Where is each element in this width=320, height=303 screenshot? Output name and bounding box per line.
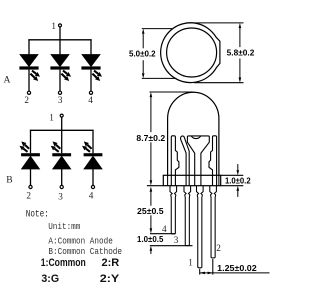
svg-text:5.8±0.2: 5.8±0.2 [227, 49, 255, 58]
svg-text:1: 1 [51, 21, 56, 31]
svg-text:5.0±0.2: 5.0±0.2 [129, 50, 156, 59]
flange bottom extension line left [147, 185, 163, 187]
terminal pin 2 (B) [29, 185, 32, 188]
dim line 8.7 upper arrow [150, 92, 153, 97]
svg-text:B: B [6, 175, 12, 186]
svg-text:3: 3 [174, 235, 179, 245]
svg-text:3:G: 3:G [41, 273, 59, 285]
wire bus to LED4 cathode [30, 130, 32, 153]
svg-text:2: 2 [26, 190, 31, 200]
dim extension lines 5.0 [142, 28, 172, 30]
LED body side outline (dome) [168, 92, 219, 175]
pitch dim left arrow [200, 272, 205, 275]
lead pin2 [210, 186, 217, 258]
svg-text:2:R: 2:R [102, 257, 120, 269]
schematic A pin 1 wire [59, 27, 61, 55]
flange top extension line right [221, 174, 244, 176]
emission arrows of D4 red LED [23, 149, 27, 152]
diode D1 red LED (schematic A) [20, 55, 38, 67]
lead4 tip extension line [150, 233, 176, 235]
svg-text:1.0±0.2: 1.0±0.2 [225, 176, 251, 185]
svg-text:B:Common Cathode: B:Common Cathode [48, 246, 122, 257]
svg-text:3: 3 [58, 95, 63, 105]
dim extension lines 5.8 [186, 22, 244, 24]
internal lead post pin4 [171, 136, 179, 186]
LED flange outline (side view) [163, 175, 220, 185]
lead pin4 (shortest) [170, 186, 177, 234]
diode D5 green LED (schematic B) [52, 153, 71, 156]
diode D2 green LED (schematic A) [51, 55, 69, 67]
lead pin3 [184, 186, 191, 246]
internal lead post pin3 [181, 136, 190, 186]
schematic A pin 1 terminal [59, 24, 62, 27]
dim 1.0 flange upper arrow [237, 170, 240, 175]
flange bottom extension line right [221, 185, 244, 187]
svg-text:3: 3 [58, 191, 63, 201]
svg-text:1:Common: 1:Common [41, 257, 86, 269]
dim line 5.0 upper arrow [142, 29, 145, 34]
LED package flange outline (top view) with cathode flat [161, 23, 220, 83]
svg-text:1: 1 [188, 258, 193, 268]
diode D6 yellow LED (schematic B) [84, 153, 103, 156]
diode D4 red LED (schematic B) [21, 153, 40, 156]
dim line 5.8 upper arrow [239, 23, 242, 28]
emission arrows of D5 green LED [55, 149, 59, 152]
wire D6 yellow LED anode to terminal [92, 169, 94, 185]
svg-text:Unit:mm: Unit:mm [48, 221, 80, 232]
wire D2 green LED cathode to terminal [59, 70, 61, 92]
wire bus to LED3 anode [90, 39, 92, 54]
wire bus to LED6 cathode [92, 130, 94, 153]
svg-text:Note:: Note: [26, 210, 49, 221]
lead pin1 (longest, common) [197, 186, 204, 268]
terminal pin 2 (A) [27, 91, 30, 94]
terminal pin 3 (A) [58, 91, 61, 94]
wire D4 red LED anode to terminal [30, 169, 32, 185]
svg-text:4: 4 [89, 190, 94, 200]
svg-text:A: A [4, 74, 11, 85]
svg-text:A:Common Anode: A:Common Anode [48, 236, 113, 247]
dim line 1.0 lower arrow [150, 246, 153, 251]
internal lead post pin2 [209, 136, 217, 186]
lead1 pitch extension line [199, 269, 201, 275]
emission arrows of D3 yellow LED [94, 71, 98, 74]
svg-text:1.25±0.02: 1.25±0.02 [217, 264, 257, 273]
svg-text:25±0.5: 25±0.5 [137, 207, 164, 216]
dim line 5.8 lower arrow [239, 78, 242, 83]
dim line 8.7 lower arrow [150, 180, 153, 185]
emission arrows of D6 yellow LED [86, 149, 90, 152]
lead2 pitch extension line [212, 259, 214, 275]
schematic B pin 1 wire [61, 117, 63, 153]
svg-text:2: 2 [216, 243, 221, 253]
wire D5 green LED anode to terminal [61, 169, 63, 185]
svg-text:1.0±0.5: 1.0±0.5 [137, 235, 164, 244]
terminal pin 3 (B) [60, 185, 63, 188]
emission arrows of D2 green LED [63, 71, 67, 74]
schematic A anode bus wire [28, 39, 91, 41]
emission arrows of D1 red LED [32, 71, 36, 74]
LED flange fill (side view) [163, 175, 220, 185]
schematic B pin 1 terminal [60, 114, 63, 117]
dim line 25 lower arrow [150, 228, 153, 233]
wire D1 red LED cathode to terminal [28, 70, 30, 92]
dim line 5.0 lower arrow [142, 73, 145, 78]
dim 1.0 flange lower arrow [237, 186, 240, 191]
terminal pin 4 (A) [89, 91, 92, 94]
wire D3 yellow LED cathode to terminal [90, 70, 92, 92]
svg-text:2: 2 [24, 95, 29, 105]
svg-text:4: 4 [88, 95, 93, 105]
terminal pin 4 (B) [91, 185, 94, 188]
lead3 tip extension line [150, 245, 193, 247]
pitch dimension baseline [200, 272, 270, 274]
diode D3 yellow LED (schematic A) [82, 55, 100, 67]
svg-text:1: 1 [49, 113, 54, 123]
internal reflector cup pin1 [187, 136, 209, 186]
LED chip cavity arc in cup [191, 136, 200, 138]
svg-text:4: 4 [162, 224, 167, 234]
dim line 25 upper arrow [150, 187, 153, 192]
schematic B cathode bus wire [30, 129, 94, 131]
dim extension line at dome apex [150, 91, 194, 93]
LED epoxy body circle (top view) [167, 28, 217, 77]
pitch dim right arrow [208, 272, 213, 275]
svg-text:2:Y: 2:Y [100, 273, 120, 285]
svg-text:8.7±0.2: 8.7±0.2 [136, 134, 165, 143]
body wall lines through flange [167, 175, 169, 185]
wire bus to LED1 anode [28, 39, 30, 54]
